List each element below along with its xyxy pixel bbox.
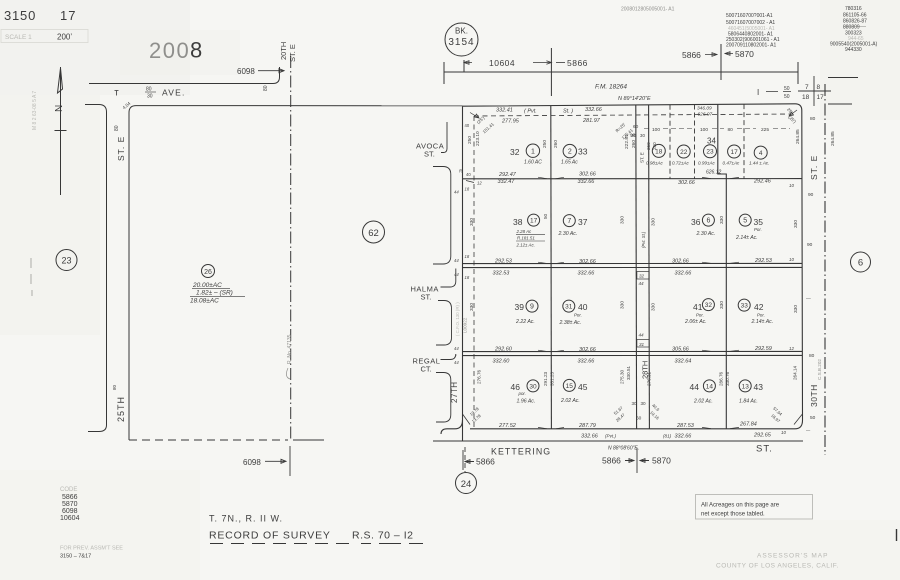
N label (rotated) — [54, 105, 65, 112]
left end tick — [443, 62, 445, 84]
svg-text:332.41: 332.41 — [496, 108, 513, 114]
svg-text:por.: por. — [518, 391, 526, 396]
svg-text:332.66: 332.66 — [675, 270, 693, 276]
5866 dimension — [556, 62, 565, 64]
row boundary line 1 (Avoca) — [463, 178, 803, 180]
corner arrow marks row1 top-left — [470, 113, 479, 119]
svg-text:3150 – 7&17: 3150 – 7&17 — [60, 554, 91, 560]
svg-text:40: 40 — [578, 302, 588, 312]
svg-text:264.14: 264.14 — [793, 366, 798, 380]
svg-text:332.60: 332.60 — [493, 358, 511, 364]
25TH label (rotated) — [116, 396, 126, 422]
svg-text:Por.: Por. — [574, 313, 582, 318]
svg-text:6: 6 — [706, 218, 710, 225]
circled 23 (adjacent map page) — [56, 250, 77, 271]
28th St corridor west line — [635, 105, 638, 429]
svg-text:264.85: 264.85 — [795, 129, 801, 144]
10604 dimension — [489, 58, 515, 68]
svg-text:CODE: CODE — [60, 487, 77, 493]
svg-text:44: 44 — [454, 272, 459, 277]
svg-text:44: 44 — [454, 190, 459, 195]
svg-text:18: 18 — [655, 148, 663, 155]
circled 6 (adjacent page) — [851, 252, 871, 272]
svg-text:302.66: 302.66 — [672, 258, 690, 264]
scale box — [1, 30, 88, 43]
svg-text:—: — — [806, 297, 811, 302]
svg-text:6: 6 — [858, 258, 863, 269]
svg-text:ST.: ST. — [421, 293, 432, 302]
svg-text:264.85: 264.85 — [830, 131, 836, 146]
svg-text:332.66: 332.66 — [578, 179, 596, 185]
survey reference R No 47135 (rotated) — [287, 334, 293, 364]
corner cutoff diagonal SW of tract — [463, 414, 471, 425]
svg-text:330: 330 — [719, 301, 725, 309]
parcel 26 circle — [202, 265, 215, 278]
scan tone washes — [0, 0, 190, 95]
svg-text:7: 7 — [805, 84, 809, 91]
Kettering St north edge — [441, 420, 795, 434]
svg-text:1.60 AC: 1.60 AC — [524, 160, 542, 166]
svg-text:St. ): St. ) — [563, 109, 573, 115]
svg-text:N 89°14′20″E: N 89°14′20″E — [618, 96, 651, 102]
svg-text:N: N — [54, 105, 65, 112]
svg-text:CT.: CT. — [421, 365, 432, 374]
svg-text:18: 18 — [465, 187, 470, 192]
svg-text:1.65 Ac: 1.65 Ac — [561, 160, 578, 166]
svg-text:33: 33 — [741, 303, 749, 310]
svg-text:ST.: ST. — [424, 150, 435, 159]
svg-text:332.66: 332.66 — [675, 433, 693, 439]
ROW 4 — [469, 361, 798, 440]
svg-text:330.51: 330.51 — [626, 366, 631, 380]
dashed section line at bottom of big parcel — [129, 439, 288, 441]
svg-text:2.14± Ac.: 2.14± Ac. — [751, 319, 774, 325]
section corner cross 7/8 18/17 — [798, 76, 831, 106]
svg-text:(Pvt. St.): (Pvt. St.) — [641, 231, 646, 248]
svg-text:37: 37 — [578, 217, 588, 227]
svg-text:FOR PREV. ASSM’T SEE: FOR PREV. ASSM’T SEE — [60, 546, 123, 552]
AVE. street name — [162, 88, 186, 98]
lot 45 circle 15 — [563, 379, 575, 391]
28th St corridor east line — [648, 105, 651, 429]
svg-text:KETTERING: KETTERING — [491, 447, 551, 457]
svg-text:17: 17 — [60, 8, 76, 23]
svg-text:330: 330 — [620, 301, 626, 309]
tick mark west of Ave label — [115, 91, 119, 96]
svg-text:8: 8 — [817, 84, 821, 91]
svg-text:626.07: 626.07 — [698, 112, 713, 118]
svg-text:22: 22 — [680, 149, 688, 156]
svg-text:12: 12 — [789, 346, 794, 351]
svg-text:5866: 5866 — [476, 457, 495, 467]
junction arrow marks on Regal line — [538, 350, 739, 351]
svg-text:275.30: 275.30 — [620, 370, 625, 384]
svg-text:44: 44 — [639, 333, 645, 338]
svg-text:All Acreages on this page are: All Acreages on this page are — [701, 503, 780, 509]
svg-text:225: 225 — [761, 127, 769, 133]
svg-text:302.66: 302.66 — [579, 347, 597, 353]
svg-text:32: 32 — [639, 274, 645, 279]
svg-text:3150: 3150 — [4, 8, 36, 23]
svg-text:944330: 944330 — [845, 47, 862, 53]
svg-text:18: 18 — [802, 94, 810, 101]
svg-text:24: 24 — [461, 479, 472, 490]
faint recording number top-center — [621, 7, 675, 13]
west block stub (Regal-Kettering) — [436, 373, 451, 423]
svg-text:330: 330 — [719, 216, 725, 224]
svg-text:292.60: 292.60 — [494, 347, 513, 353]
svg-text:18: 18 — [465, 275, 470, 280]
svg-text:332.47: 332.47 — [498, 179, 516, 185]
svg-text:C.S.B.202: C.S.B.202 — [817, 359, 822, 380]
svg-text:ST. E: ST. E — [640, 152, 645, 163]
north arrow head — [58, 68, 63, 93]
svg-text:80: 80 — [263, 85, 269, 91]
svg-text:17: 17 — [730, 149, 738, 156]
svg-text:10604: 10604 — [489, 58, 515, 68]
svg-text:5: 5 — [743, 218, 747, 225]
svg-text:34: 34 — [707, 137, 716, 146]
svg-text:277.95: 277.95 — [501, 119, 520, 125]
svg-text:2.28 Ac: 2.28 Ac — [516, 229, 533, 234]
svg-text:31: 31 — [639, 342, 645, 347]
svg-text:50: 50 — [784, 86, 790, 92]
svg-text:7: 7 — [567, 218, 571, 225]
svg-text:6098: 6098 — [62, 508, 78, 515]
svg-text:9: 9 — [530, 304, 534, 311]
lot 35 circle 5 — [739, 214, 751, 226]
svg-text:N 88°08′60″E.: N 88°08′60″E. — [608, 446, 639, 452]
Regal leader bracket — [441, 354, 456, 360]
svg-text:5866: 5866 — [602, 456, 621, 466]
lot 32 circle 1 — [526, 129, 790, 159]
township indicator I - 50/50 — [757, 86, 790, 100]
interior dashed strip line (top private st) — [474, 114, 793, 116]
6098 bottom label with leader — [243, 458, 261, 467]
svg-text:305.66: 305.66 — [672, 346, 690, 352]
svg-text:292.46: 292.46 — [753, 178, 772, 184]
township line T.7N R.11W — [209, 514, 283, 524]
5866 left tick and label — [463, 450, 474, 470]
svg-text:3154: 3154 — [448, 37, 474, 48]
svg-text:44: 44 — [454, 360, 459, 365]
svg-text:36: 36 — [691, 217, 701, 227]
F.M. 18264 reference — [595, 84, 627, 91]
svg-text:35: 35 — [754, 217, 764, 227]
underlines in lot38 stack — [516, 235, 545, 241]
svg-text:291.23: 291.23 — [543, 372, 548, 386]
svg-text:332.64: 332.64 — [675, 358, 692, 364]
svg-text:RECORD OF SURVEY: RECORD OF SURVEY — [209, 530, 331, 542]
svg-text:100: 100 — [700, 127, 708, 133]
svg-text:292.65: 292.65 — [753, 432, 772, 438]
svg-text:80: 80 — [728, 127, 734, 133]
north arrow tick — [55, 130, 67, 132]
2008 date stamp — [149, 38, 202, 64]
lot 40 circle 31 — [563, 300, 575, 312]
east block stub north of Ave — [828, 77, 858, 79]
Ave north edge — [89, 67, 280, 84]
svg-text:200: 200 — [149, 38, 190, 63]
svg-text:2008012805005001- A1: 2008012805005001- A1 — [621, 7, 675, 13]
svg-text:626.12: 626.12 — [706, 170, 722, 176]
svg-text:286.76: 286.76 — [719, 372, 724, 386]
svg-text:( C.F.O. 130 (R) ): ( C.F.O. 130 (R) ) — [455, 302, 460, 336]
svg-text:80: 80 — [114, 125, 120, 131]
CODE list — [60, 487, 80, 522]
svg-text:90: 90 — [808, 192, 814, 198]
svg-text:200709110802001- A1: 200709110802001- A1 — [726, 43, 776, 49]
svg-text:0.98±Ac: 0.98±Ac — [646, 161, 664, 166]
east block stub Ave south — [828, 103, 852, 105]
svg-text:Por.: Por. — [754, 227, 762, 232]
svg-text:331.23: 331.23 — [550, 372, 555, 386]
junction arrow marks on Halma line — [538, 262, 739, 263]
ST. E label (rotated) 25th — [116, 136, 126, 161]
6098 top label with leader — [237, 67, 255, 76]
svg-text:50: 50 — [810, 415, 816, 421]
svg-text:80: 80 — [809, 353, 815, 359]
svg-text:2.02 Ac.: 2.02 Ac. — [693, 399, 713, 405]
faint assessor's map note — [716, 553, 839, 570]
5866 -> 5870 pair at tick 721 — [682, 49, 754, 60]
svg-text:330.76: 330.76 — [725, 372, 730, 386]
faint recording number stack — [726, 13, 780, 49]
svg-text:Por.: Por. — [696, 313, 704, 318]
svg-text:AVE.: AVE. — [162, 88, 186, 98]
svg-text:2.38± Ac.: 2.38± Ac. — [559, 320, 582, 326]
lot 36 circle 6 — [702, 214, 714, 226]
svg-text:T. 7N., R. II W.: T. 7N., R. II W. — [209, 514, 283, 524]
tract left boundary — [462, 106, 464, 441]
svg-text:330: 330 — [651, 303, 657, 311]
page right edge tick — [896, 529, 898, 541]
tick at 464 — [463, 60, 465, 72]
svg-text:30TH: 30TH — [809, 384, 819, 407]
KETTERING street name — [491, 444, 773, 457]
RECORD OF SURVEY title — [209, 530, 413, 542]
svg-text:346.09: 346.09 — [697, 106, 712, 112]
Ave south edge (continues as top boundary of right block) — [85, 105, 107, 432]
svg-text:332.53: 332.53 — [493, 270, 511, 276]
svg-text:32: 32 — [705, 302, 713, 309]
faint recording numbers top-right — [830, 6, 878, 53]
lot 42 circle 33 — [738, 299, 750, 311]
svg-text:17: 17 — [817, 94, 825, 101]
faint margin text column — [32, 91, 38, 130]
svg-text:5870: 5870 — [652, 456, 671, 466]
svg-text:2.30 Ac.: 2.30 Ac. — [696, 231, 716, 237]
svg-text:6098: 6098 — [237, 67, 255, 76]
svg-text:332.66: 332.66 — [578, 271, 596, 277]
svg-text:80: 80 — [112, 384, 117, 390]
Regal Ct corridor south line — [463, 354, 803, 356]
svg-text:5870: 5870 — [735, 49, 754, 59]
svg-text:332.66: 332.66 — [581, 433, 599, 439]
svg-text:80: 80 — [146, 87, 152, 93]
bearing N 89 14'20"E — [618, 96, 651, 102]
svg-text:100: 100 — [652, 127, 660, 133]
svg-text:292.53: 292.53 — [754, 258, 773, 264]
svg-text:20TH: 20TH — [279, 42, 288, 60]
svg-text:R. No. 47135: R. No. 47135 — [287, 334, 293, 364]
svg-text:28TH: 28TH — [641, 361, 650, 379]
svg-text:302.66: 302.66 — [579, 172, 597, 178]
svg-text:2.14± Ac.: 2.14± Ac. — [735, 235, 758, 241]
svg-text:260: 260 — [553, 140, 559, 148]
svg-text:60: 60 — [633, 124, 639, 130]
row1 small lot line (solid) with jog to divider 2 — [718, 104, 727, 178]
svg-text:200’: 200’ — [57, 33, 72, 42]
corner arrow marks row1 top-right — [789, 110, 797, 116]
ROW 3 — [454, 274, 799, 366]
svg-text:267.84: 267.84 — [739, 421, 757, 427]
column divider 2 (rows 2-4) — [725, 179, 727, 429]
svg-text:332.66: 332.66 — [578, 359, 596, 365]
svg-text:281.97: 281.97 — [582, 118, 601, 124]
svg-text:12: 12 — [477, 181, 482, 186]
corner cutoff diagonal SE of tract — [794, 414, 802, 425]
svg-text:0.47±Ac: 0.47±Ac — [723, 161, 741, 166]
svg-text:80: 80 — [810, 116, 816, 122]
svg-text:50: 50 — [784, 94, 790, 100]
svg-text:287.53: 287.53 — [676, 423, 695, 429]
column divider 1 — [550, 106, 553, 429]
BK 3154 book circle — [445, 23, 478, 56]
svg-text:332.66: 332.66 — [585, 107, 603, 113]
svg-text:6098: 6098 — [243, 458, 261, 467]
svg-text:42: 42 — [754, 302, 764, 312]
corner dim 4.04 — [122, 100, 132, 110]
svg-text:292.47: 292.47 — [498, 172, 517, 178]
svg-text:17: 17 — [530, 218, 538, 225]
svg-text:2.06± Ac.: 2.06± Ac. — [684, 319, 707, 325]
svg-text:50: 50 — [543, 213, 548, 219]
svg-text:0.72±Ac: 0.72±Ac — [672, 161, 690, 166]
Halma St label — [411, 285, 439, 302]
svg-text:5866: 5866 — [567, 58, 588, 68]
svg-text:260: 260 — [646, 142, 651, 150]
20th St E east edge dash-dot line — [290, 56, 292, 440]
svg-text:330: 330 — [469, 303, 475, 311]
svg-text:1.82± – (SR): 1.82± – (SR) — [196, 290, 233, 297]
lot 37 circle 7 — [563, 215, 575, 227]
svg-text:26: 26 — [204, 269, 212, 276]
Avoca leader bracket — [441, 122, 447, 153]
svg-text:62: 62 — [368, 228, 379, 239]
svg-text:90: 90 — [630, 133, 636, 139]
svg-text:330: 330 — [469, 218, 475, 226]
27TH street label rotated — [450, 381, 459, 403]
svg-text:44: 44 — [639, 281, 645, 286]
svg-text:23: 23 — [61, 256, 71, 266]
svg-text:250: 250 — [467, 136, 473, 144]
svg-text:10: 10 — [781, 430, 786, 435]
svg-text:net except those tabled.: net except those tabled. — [701, 512, 765, 518]
svg-text:2.12± Ac.: 2.12± Ac. — [516, 243, 535, 248]
svg-text:23: 23 — [706, 149, 714, 156]
svg-text:5866: 5866 — [682, 50, 701, 60]
svg-text:5007160700?001-A1: 5007160700?001-A1 — [726, 13, 773, 19]
svg-text:13: 13 — [742, 384, 750, 391]
svg-text:SCALE 1: SCALE 1 — [5, 34, 32, 41]
svg-text:2.02 Ac.: 2.02 Ac. — [560, 398, 580, 404]
svg-text:330: 330 — [793, 220, 799, 228]
svg-text:292.59: 292.59 — [754, 346, 772, 352]
svg-text:10604: 10604 — [60, 515, 80, 522]
Regal Ct label — [413, 357, 441, 374]
svg-text:90: 90 — [807, 242, 813, 248]
Halma St corridor north line — [463, 262, 803, 264]
svg-text:277.52: 277.52 — [498, 423, 516, 429]
Halma St corridor south line — [463, 266, 803, 268]
circled 62 (adjacent map page) — [363, 221, 385, 243]
svg-text:260: 260 — [631, 140, 637, 148]
80 rotated below corner — [114, 125, 120, 131]
lot 46 circle 30 — [527, 379, 751, 392]
svg-text:18.08±AC: 18.08±AC — [190, 298, 219, 305]
circled 24 (adjacent page) — [456, 473, 477, 494]
44 box borders — [637, 272, 649, 280]
page edge faint marks — [31, 258, 32, 296]
svg-text:2.30 Ac.: 2.30 Ac. — [558, 231, 578, 237]
svg-text:32: 32 — [510, 147, 520, 157]
svg-text:330: 330 — [620, 216, 626, 224]
right end tick — [797, 62, 799, 84]
interior dashed west lot line — [473, 116, 475, 428]
map book number 3150 — [4, 8, 76, 23]
Regal Ct corridor north line — [463, 350, 803, 352]
lot 39 circle 9 — [526, 272, 750, 348]
svg-text:Por.: Por. — [757, 313, 765, 318]
tick at 721 — [720, 44, 722, 80]
svg-text:40: 40 — [466, 172, 471, 177]
tick at 551 — [550, 48, 552, 96]
80 tick near 25TH — [112, 384, 117, 390]
leader dashes on frontage dim row — [644, 128, 790, 130]
ROW 2 — [454, 192, 814, 280]
row1 lot dashed lines — [670, 104, 744, 179]
svg-text:ST. E: ST. E — [809, 155, 819, 180]
svg-text:40: 40 — [465, 123, 470, 128]
svg-text:30: 30 — [641, 401, 647, 406]
svg-text:8: 8 — [190, 38, 202, 63]
faint prev assessment note — [60, 546, 123, 560]
svg-text:18: 18 — [465, 254, 470, 259]
underline under title words — [222, 529, 224, 531]
north arrow line — [60, 67, 62, 195]
svg-text:ST. E: ST. E — [116, 136, 126, 161]
Halma leader bracket — [441, 269, 456, 288]
svg-text:1.96 Ac.: 1.96 Ac. — [517, 399, 536, 405]
west block stub (Halma-Regal) — [436, 301, 452, 346]
svg-text:10: 10 — [789, 183, 794, 188]
svg-text:287.79: 287.79 — [578, 423, 596, 429]
svg-text:38: 38 — [513, 217, 523, 227]
svg-text:39: 39 — [515, 302, 525, 312]
svg-text:1: 1 — [531, 148, 535, 155]
svg-text:(81): (81) — [663, 433, 672, 438]
svg-text:20.00±AC: 20.00±AC — [192, 282, 222, 289]
svg-text:44: 44 — [454, 346, 459, 351]
svg-text:2.22 Ac.: 2.22 Ac. — [515, 319, 535, 325]
svg-text:31: 31 — [565, 304, 573, 311]
svg-text:2: 2 — [568, 149, 572, 156]
svg-text:( Pvt.: ( Pvt. — [524, 109, 537, 115]
svg-text:5866: 5866 — [62, 494, 78, 501]
svg-text:4: 4 — [759, 150, 763, 157]
svg-text:ST. E: ST. E — [288, 44, 297, 62]
